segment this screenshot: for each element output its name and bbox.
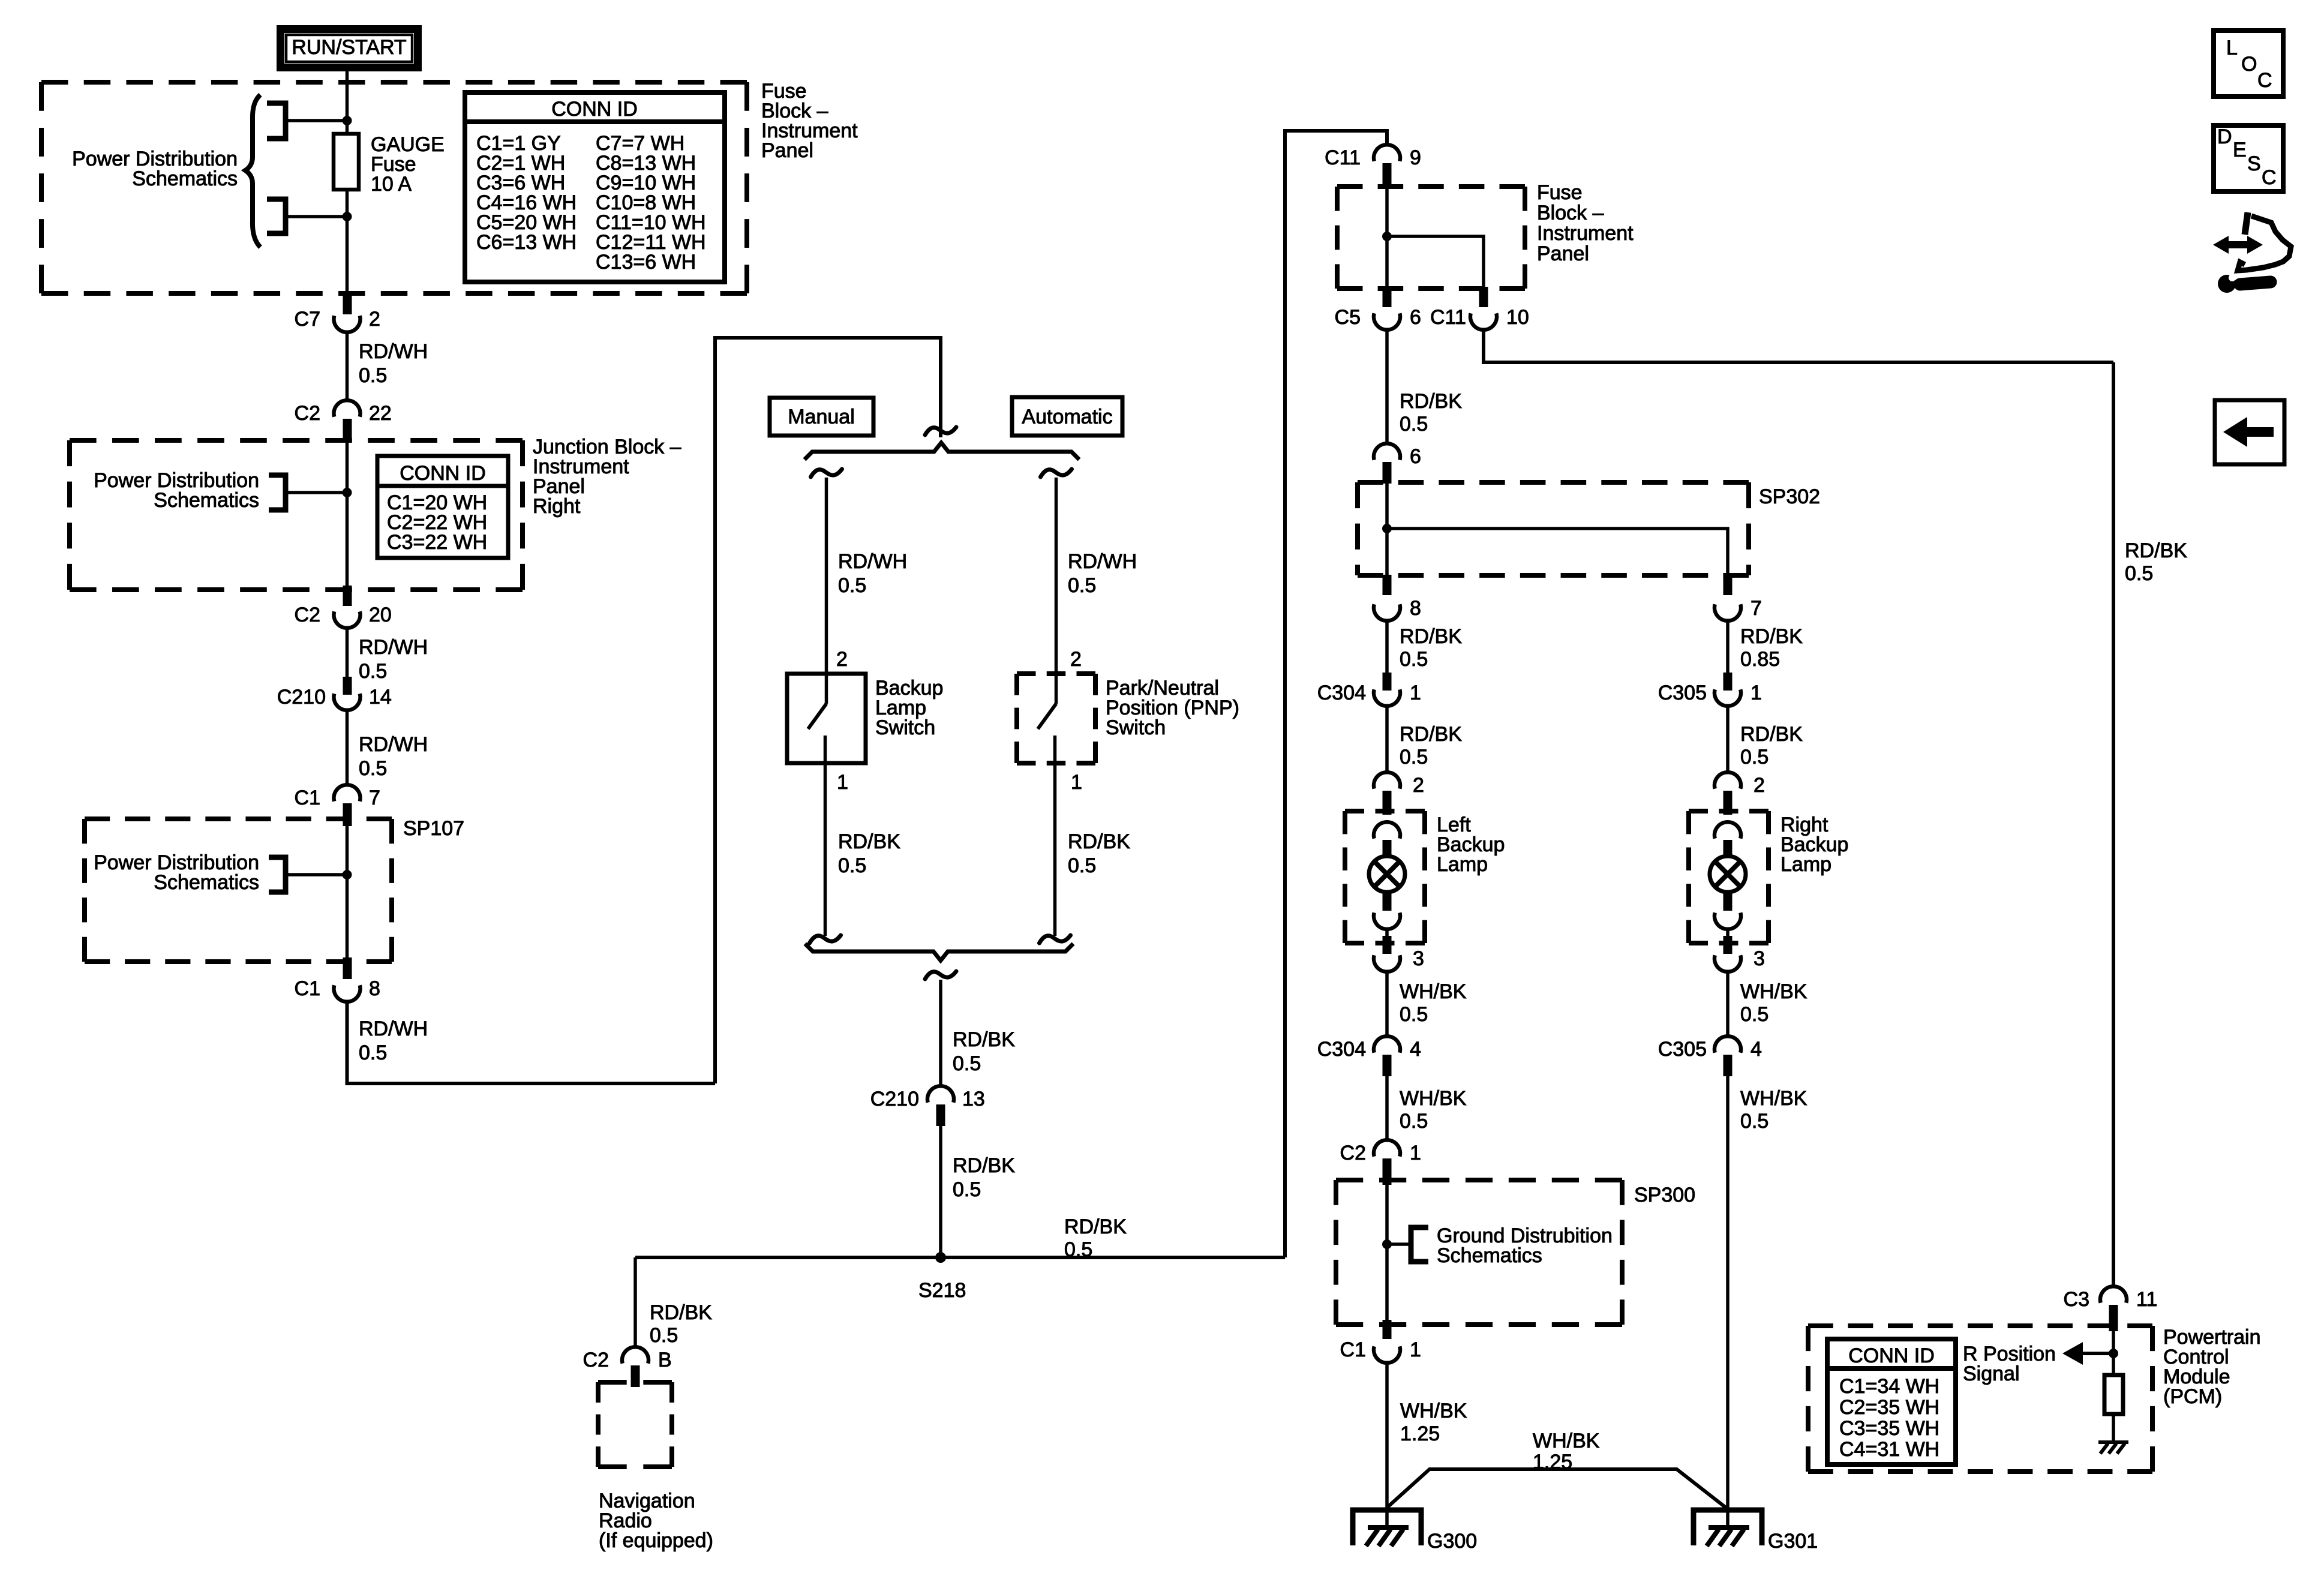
node B junction dot <box>343 212 352 221</box>
svg-text:Switch: Switch <box>1106 716 1166 739</box>
pin stub left lamp pin 2 <box>1383 791 1392 815</box>
svg-text:2: 2 <box>836 648 848 671</box>
svg-text:C7: C7 <box>295 308 320 331</box>
svg-text:C5: C5 <box>1335 306 1361 329</box>
svg-text:(If equipped): (If equipped) <box>599 1529 713 1552</box>
label RD/BK 0.85 (right) <box>1740 625 1803 671</box>
right lamp socket top stub <box>1724 840 1733 858</box>
svg-text:Lamp: Lamp <box>1780 853 1831 876</box>
wire inside fuse block to branch dot <box>1385 186 1389 287</box>
wire left lamp to pin 3 <box>1385 927 1389 943</box>
break symbol joined output <box>925 971 956 979</box>
splice S218 dot <box>935 1252 946 1263</box>
svg-text:Right: Right <box>533 495 581 518</box>
connector C11 pin 10 <box>1470 313 1497 330</box>
connector C210 pin 14 <box>334 694 361 710</box>
left lamp socket bottom connector <box>1374 912 1400 929</box>
svg-text:C2: C2 <box>295 604 320 626</box>
connector right lamp pin 3 <box>1715 955 1741 972</box>
label WH/BK 0.5 (right drop) <box>1740 1087 1807 1133</box>
svg-text:0.5: 0.5 <box>1740 1003 1768 1026</box>
connector C305 pin 1 <box>1715 689 1741 706</box>
bracket SP107 feed <box>269 857 286 892</box>
svg-text:0.5: 0.5 <box>1400 413 1428 436</box>
svg-text:13: 13 <box>962 1088 985 1110</box>
icon harness connector with arrow and wrench <box>2213 212 2291 293</box>
connector C304 pin 4 <box>1374 1036 1400 1053</box>
label Fuse Block - Instrument Panel (right) <box>1537 181 1634 265</box>
junction dot SP107 <box>343 870 352 879</box>
left backup lamp dashed box <box>1345 811 1425 943</box>
svg-text:C1: C1 <box>295 977 320 1000</box>
svg-text:RD/WH: RD/WH <box>359 340 428 363</box>
svg-text:C11: C11 <box>1325 146 1361 169</box>
right lamp socket top connector <box>1715 822 1741 839</box>
svg-text:SP302: SP302 <box>1759 485 1820 508</box>
R position signal arrow <box>2062 1342 2113 1365</box>
right lamp socket bottom connector <box>1715 912 1741 929</box>
CONN ID table (fuse block) <box>465 92 725 282</box>
splice SP300 dashed box <box>1336 1180 1622 1325</box>
label WH/BK 0.5 <box>1400 1087 1467 1133</box>
label RD/BK 0.5 <box>1740 723 1803 769</box>
svg-text:RD/BK: RD/BK <box>953 1028 1015 1051</box>
label RD/WH 0.5 <box>359 636 428 683</box>
svg-text:10 A: 10 A <box>371 173 412 196</box>
svg-text:WH/BK: WH/BK <box>1533 1430 1600 1452</box>
junction dot SP300 <box>1382 1239 1392 1249</box>
svg-text:C1=34 WH: C1=34 WH <box>1839 1375 1939 1398</box>
bracket SP300 ground ref <box>1411 1227 1428 1262</box>
svg-text:4: 4 <box>1410 1038 1421 1061</box>
svg-text:C: C <box>2262 166 2277 189</box>
svg-text:22: 22 <box>369 402 392 425</box>
connector C1 pin 8 <box>334 985 361 1002</box>
pin stub C7-2 <box>343 294 352 314</box>
label Ground Distrubition Schematics <box>1437 1224 1613 1267</box>
svg-text:WH/BK: WH/BK <box>1400 1400 1467 1422</box>
connector C2 pin 22 <box>334 400 361 417</box>
label box Automatic <box>1012 397 1122 436</box>
wire C210-14 to C1-7, RD/WH 0.5 <box>346 709 349 786</box>
svg-text:3: 3 <box>1413 947 1424 970</box>
backup lamp switch contacts <box>808 674 827 763</box>
break symbol manual join <box>810 935 841 943</box>
svg-text:10: 10 <box>1506 306 1529 329</box>
label RD/WH 0.5 <box>359 340 428 387</box>
bracket lower feed <box>267 199 286 233</box>
junction dot SP302 <box>1382 524 1392 533</box>
right backup lamp bulb <box>1710 856 1746 892</box>
label WH/BK 1.25 (jumper) <box>1533 1430 1600 1473</box>
wire C7-2 to C2-22, RD/WH 0.5 <box>346 331 349 401</box>
svg-text:1.25: 1.25 <box>1400 1422 1440 1445</box>
icon back arrow box <box>2215 400 2284 464</box>
connector C2 pin 1 <box>1374 1140 1400 1157</box>
icon LOC box <box>2214 31 2283 97</box>
pin stub C210-13 <box>936 1104 945 1126</box>
bracket junction block feed <box>269 475 286 510</box>
connector C305 pin 4 <box>1715 1036 1741 1053</box>
wire 7 to C305-1, RD/BK 0.85 <box>1726 619 1730 673</box>
svg-text:C305: C305 <box>1658 1038 1707 1061</box>
wire C1-8 down and right to riser <box>347 1000 716 1083</box>
Power Distribution Schematics label (junction block) <box>94 469 259 512</box>
label RD/WH 0.5 (manual) <box>838 550 907 597</box>
svg-text:7: 7 <box>1750 597 1762 620</box>
svg-text:SP107: SP107 <box>403 817 464 840</box>
pin stub C2-22 <box>343 419 352 442</box>
svg-text:C11: C11 <box>1430 306 1466 329</box>
junction block - instrument panel right dashed box <box>70 440 523 590</box>
label Backup Lamp Switch <box>875 677 943 739</box>
wire bracket to junction dot <box>287 491 347 494</box>
wire right pin3 to C305-4, WH/BK 0.5 <box>1726 970 1730 1038</box>
label Right Backup Lamp <box>1780 813 1848 876</box>
svg-text:Panel: Panel <box>1537 242 1589 265</box>
left lamp socket top stub <box>1383 840 1392 858</box>
svg-text:0.5: 0.5 <box>359 757 387 780</box>
pin stub C11-10 <box>1479 287 1488 307</box>
svg-text:WH/BK: WH/BK <box>1740 1087 1807 1110</box>
label WH/BK 0.5 <box>1740 980 1807 1026</box>
svg-text:RD/WH: RD/WH <box>359 1017 428 1040</box>
wire bracket to node B <box>287 215 347 218</box>
junction dot (fuse block branch) <box>1382 232 1392 241</box>
svg-text:Signal: Signal <box>1963 1362 2020 1385</box>
svg-text:RD/BK: RD/BK <box>1400 390 1462 413</box>
pin stub C11-9 <box>1383 163 1392 188</box>
icon DESC box <box>2214 125 2283 191</box>
brace splitting manual/automatic <box>804 443 1079 460</box>
wire bracket to node A <box>287 119 347 122</box>
node RUN/START (ignition feed) <box>281 29 418 68</box>
fuse block - instrument panel (right) dashed box <box>1337 187 1525 289</box>
svg-text:G301: G301 <box>1768 1530 1818 1553</box>
svg-text:1: 1 <box>1750 682 1762 704</box>
connector C5 pin 6 <box>1374 313 1400 330</box>
break symbol automatic branch <box>1041 469 1072 477</box>
chassis ground (PCM internal) <box>2098 1442 2128 1454</box>
svg-text:Panel: Panel <box>761 139 813 162</box>
svg-text:C3: C3 <box>2064 1288 2089 1311</box>
break symbol manual branch <box>811 469 842 477</box>
wire from RUN/START into fuse block <box>346 68 349 134</box>
fuse block - instrument panel dashed box <box>41 82 747 293</box>
connector pin 8 <box>1374 604 1400 621</box>
connector C2 pin B <box>622 1347 648 1364</box>
svg-text:RUN/START: RUN/START <box>292 36 406 59</box>
wire C305-4 down to ground G301, WH/BK 0.5 <box>1726 1076 1730 1527</box>
Power Distribution Schematics label (fuse block) <box>72 148 238 190</box>
svg-text:0.5: 0.5 <box>2125 562 2153 585</box>
svg-text:0.5: 0.5 <box>1068 854 1096 877</box>
svg-text:C1: C1 <box>1340 1338 1366 1361</box>
svg-text:11: 11 <box>2136 1288 2157 1311</box>
svg-text:E: E <box>2233 139 2247 161</box>
svg-text:0.5: 0.5 <box>1400 648 1428 671</box>
label RD/BK 0.5 <box>1400 723 1462 769</box>
svg-text:C1: C1 <box>295 786 320 809</box>
svg-text:Block –: Block – <box>1537 202 1604 224</box>
label RD/BK 0.5 (automatic out) <box>1068 830 1130 877</box>
powertrain control module dashed box <box>1808 1326 2152 1472</box>
svg-text:SP300: SP300 <box>1634 1184 1695 1206</box>
svg-text:RD/BK: RD/BK <box>2125 539 2187 562</box>
svg-text:7: 7 <box>369 786 380 809</box>
svg-text:WH/BK: WH/BK <box>1400 1087 1467 1110</box>
svg-text:D: D <box>2217 125 2232 148</box>
svg-text:RD/BK: RD/BK <box>1740 625 1803 648</box>
svg-text:0.5: 0.5 <box>359 1041 387 1064</box>
connector left lamp pin 3 <box>1374 955 1400 972</box>
label Park/Neutral Position (PNP) Switch <box>1106 677 1239 739</box>
svg-text:6: 6 <box>1410 445 1421 468</box>
pin stub C305-4 <box>1724 1055 1733 1076</box>
svg-text:Automatic: Automatic <box>1022 406 1112 428</box>
jumper wire G300 to G301, WH/BK 1.25 <box>1387 1469 1726 1508</box>
svg-text:WH/BK: WH/BK <box>1740 980 1807 1003</box>
junction dot PCM <box>2109 1349 2118 1358</box>
svg-text:C2: C2 <box>583 1349 609 1371</box>
wire S218 left drop to navigation radio <box>633 1257 637 1348</box>
wire branch to C11-10 <box>1387 236 1484 287</box>
svg-text:4: 4 <box>1750 1038 1762 1061</box>
pin stub right lamp pin 2 <box>1724 791 1733 815</box>
navigation radio dashed box <box>598 1382 672 1467</box>
backup lamp switch box <box>787 674 866 763</box>
pin stub C2-B <box>631 1365 640 1387</box>
fuse GAUGE 10 A <box>334 134 359 190</box>
wire riser up to switch feed <box>715 338 941 1083</box>
svg-text:0.5: 0.5 <box>953 1178 981 1201</box>
svg-text:0.5: 0.5 <box>1400 746 1428 769</box>
pin stub C2-20 <box>343 586 352 606</box>
CONN ID table (PCM) <box>1827 1339 1956 1464</box>
svg-text:1: 1 <box>1071 771 1082 794</box>
node A junction dot <box>343 116 352 125</box>
connector C1 pin 7 <box>334 785 361 801</box>
wire SP302 branch to right leg <box>1387 529 1728 575</box>
svg-text:RD/BK: RD/BK <box>1740 723 1803 746</box>
pin stub left lamp 3 <box>1383 936 1392 954</box>
ground G300 <box>1353 1510 1421 1546</box>
connector right lamp pin 2 <box>1715 772 1741 789</box>
svg-text:RD/BK: RD/BK <box>1064 1215 1127 1238</box>
wire manual branch down to switch <box>825 478 828 674</box>
svg-text:1: 1 <box>837 771 848 794</box>
pin stub C1-8 <box>343 957 352 979</box>
svg-text:(PCM): (PCM) <box>2163 1385 2222 1408</box>
resistor internal PCM <box>2104 1375 2123 1414</box>
wire SP302 left leg <box>1385 484 1389 575</box>
Power Distribution Schematics label (SP107) <box>94 851 259 894</box>
label Navigation Radio (If equipped) <box>599 1490 713 1552</box>
wire PCM riser down to C3-11 <box>2112 362 2115 1287</box>
svg-text:C2: C2 <box>1340 1142 1366 1164</box>
label RD/WH 0.5 (automatic) <box>1068 550 1137 597</box>
svg-text:CONN ID: CONN ID <box>400 462 486 485</box>
svg-text:B: B <box>658 1349 672 1371</box>
svg-text:WH/BK: WH/BK <box>1400 980 1467 1003</box>
svg-text:1: 1 <box>1410 1338 1421 1361</box>
right backup lamp dashed box <box>1689 811 1768 943</box>
svg-text:0.85: 0.85 <box>1740 648 1780 671</box>
label RD/BK 0.5 <box>953 1028 1015 1075</box>
svg-text:RD/BK: RD/BK <box>650 1301 712 1324</box>
wire manual switch down <box>824 763 827 936</box>
left lamp socket top connector <box>1374 822 1400 839</box>
svg-text:C305: C305 <box>1658 682 1707 704</box>
wire automatic switch down <box>1053 763 1057 936</box>
connector pin 7 <box>1715 604 1741 621</box>
svg-text:RD/BK: RD/BK <box>1068 830 1130 853</box>
svg-text:RD/WH: RD/WH <box>359 733 428 756</box>
svg-text:S218: S218 <box>918 1279 966 1302</box>
svg-text:CONN ID: CONN ID <box>1848 1344 1935 1367</box>
label box Manual <box>770 398 873 436</box>
svg-text:L: L <box>2226 37 2238 59</box>
wire 8 to C304-1, RD/BK 0.5 <box>1385 619 1389 673</box>
svg-text:0.5: 0.5 <box>1740 1110 1768 1133</box>
svg-text:C3=35 WH: C3=35 WH <box>1839 1417 1939 1440</box>
svg-text:RD/BK: RD/BK <box>1400 625 1462 648</box>
splice S218 bus wire <box>635 1256 1285 1259</box>
svg-text:C2: C2 <box>295 402 320 425</box>
svg-text:C3=22 WH: C3=22 WH <box>387 531 487 554</box>
connector C210 pin 13 <box>927 1086 954 1103</box>
svg-text:Switch: Switch <box>875 716 935 739</box>
svg-text:Schematics: Schematics <box>1437 1244 1542 1267</box>
wire C3-11 into PCM <box>2112 1331 2115 1375</box>
svg-text:C4=31 WH: C4=31 WH <box>1839 1438 1939 1461</box>
wire C210-13 to S218 <box>939 1126 942 1257</box>
wire right lamp to pin 3 <box>1726 927 1730 943</box>
svg-text:0.5: 0.5 <box>650 1324 678 1347</box>
connector left lamp pin 2 <box>1374 772 1400 789</box>
svg-text:0.5: 0.5 <box>1068 574 1096 597</box>
svg-text:0.5: 0.5 <box>1400 1003 1428 1026</box>
label Left Backup Lamp <box>1437 813 1505 876</box>
CONN ID table (junction block) <box>377 456 508 558</box>
wire left pin3 to C304-4, WH/BK 0.5 <box>1385 970 1389 1038</box>
svg-text:C210: C210 <box>870 1088 919 1110</box>
svg-text:RD/WH: RD/WH <box>838 550 907 573</box>
svg-text:9: 9 <box>1410 146 1421 169</box>
svg-text:Instrument: Instrument <box>1537 222 1634 245</box>
wire through SP300 <box>1385 1185 1389 1321</box>
svg-text:RD/WH: RD/WH <box>1068 550 1137 573</box>
svg-text:2: 2 <box>369 308 380 331</box>
wire C304-1 to lamp pin2, RD/BK 0.5 <box>1385 704 1389 774</box>
wire automatic branch down to switch <box>1055 478 1058 674</box>
pin stub C5-6 <box>1383 287 1392 307</box>
ground G301 <box>1694 1510 1762 1546</box>
svg-text:CONN ID: CONN ID <box>551 98 638 121</box>
connector C11 pin 9 <box>1374 145 1400 161</box>
svg-text:C6=13 WH: C6=13 WH <box>476 231 577 254</box>
svg-text:20: 20 <box>369 604 392 626</box>
wire SP300 dot to bracket <box>1387 1242 1411 1246</box>
svg-text:C210: C210 <box>277 686 326 709</box>
left lamp socket bottom stub <box>1383 894 1392 911</box>
pin stub C304-4 <box>1383 1055 1392 1076</box>
connector pin 6 (inline) <box>1374 443 1400 460</box>
svg-text:C: C <box>2257 69 2272 92</box>
pin stub C304-1 <box>1383 673 1392 691</box>
label RD/BK 0.5 <box>1400 390 1462 436</box>
wire C5-6 down, RD/BK 0.5 <box>1385 328 1389 445</box>
pin stub C210-14 <box>343 677 352 695</box>
connector C3 pin 11 <box>2100 1286 2127 1303</box>
connector C304 pin 1 <box>1374 689 1400 706</box>
svg-text:Lamp: Lamp <box>1437 853 1488 876</box>
wire C305-1 to lamp pin2, RD/BK 0.5 <box>1726 704 1730 774</box>
splice SP302 dashed box <box>1358 482 1749 575</box>
break symbol automatic join <box>1040 935 1071 943</box>
svg-text:14: 14 <box>369 686 392 709</box>
wire through junction block <box>346 442 349 586</box>
pin stub right lamp 3 <box>1724 936 1733 954</box>
svg-text:G300: G300 <box>1427 1530 1477 1553</box>
pin stub C2-1 <box>1383 1158 1392 1185</box>
wire join to C210-13 <box>939 980 942 1087</box>
right lamp socket bottom stub <box>1724 894 1733 911</box>
svg-text:C13=6 WH: C13=6 WH <box>596 251 696 274</box>
wire S218 right riser to C11-9 <box>1285 131 1387 1257</box>
pin stub C1-1 <box>1383 1320 1392 1339</box>
label RD/BK 0.5 (bus right) <box>1064 1215 1127 1261</box>
svg-text:0.5: 0.5 <box>1400 1110 1428 1133</box>
bracket upper feed <box>267 103 286 139</box>
label R Position Signal <box>1963 1343 2056 1385</box>
wire C11-10 right to PCM riser <box>1484 328 2113 362</box>
svg-text:RD/BK: RD/BK <box>838 830 900 853</box>
connector C1 pin 1 <box>1374 1346 1400 1363</box>
park/neutral position switch dashed box <box>1017 674 1095 763</box>
label Fuse Block - Instrument Panel <box>761 80 858 162</box>
svg-text:C304: C304 <box>1317 1038 1366 1061</box>
svg-text:2: 2 <box>1070 648 1082 671</box>
label RD/WH 0.5 <box>359 733 428 780</box>
wire C304-4 to C2-1, WH/BK 0.5 <box>1385 1076 1389 1142</box>
connector C2 pin 20 <box>334 611 361 628</box>
svg-text:S: S <box>2247 152 2261 175</box>
label Powertrain Control Module (PCM) <box>2163 1326 2261 1408</box>
pin stub splice left <box>1383 575 1392 595</box>
svg-text:RD/BK: RD/BK <box>953 1154 1015 1177</box>
svg-text:3: 3 <box>1753 947 1765 970</box>
brace for power distribution reference <box>245 95 260 247</box>
label Junction Block - Instrument Panel Right <box>533 436 681 518</box>
svg-text:6: 6 <box>1410 306 1421 329</box>
svg-text:RD/BK: RD/BK <box>1400 723 1462 746</box>
svg-text:0.5: 0.5 <box>1064 1238 1092 1261</box>
svg-text:C304: C304 <box>1317 682 1366 704</box>
connector C7 pin 2 <box>334 316 361 332</box>
PNP switch contacts <box>1038 674 1056 763</box>
pin stub splice right <box>1724 575 1733 595</box>
svg-text:0.5: 0.5 <box>838 854 866 877</box>
splice SP107 dashed box <box>85 819 392 962</box>
svg-text:2: 2 <box>1753 774 1765 797</box>
left backup lamp bulb <box>1369 856 1405 892</box>
svg-text:8: 8 <box>369 977 380 1000</box>
label RD/BK 0.5 (nav drop) <box>650 1301 712 1347</box>
pin stub C1-7 <box>343 803 352 826</box>
svg-text:0.5: 0.5 <box>838 574 866 597</box>
svg-text:0.5: 0.5 <box>953 1052 981 1075</box>
